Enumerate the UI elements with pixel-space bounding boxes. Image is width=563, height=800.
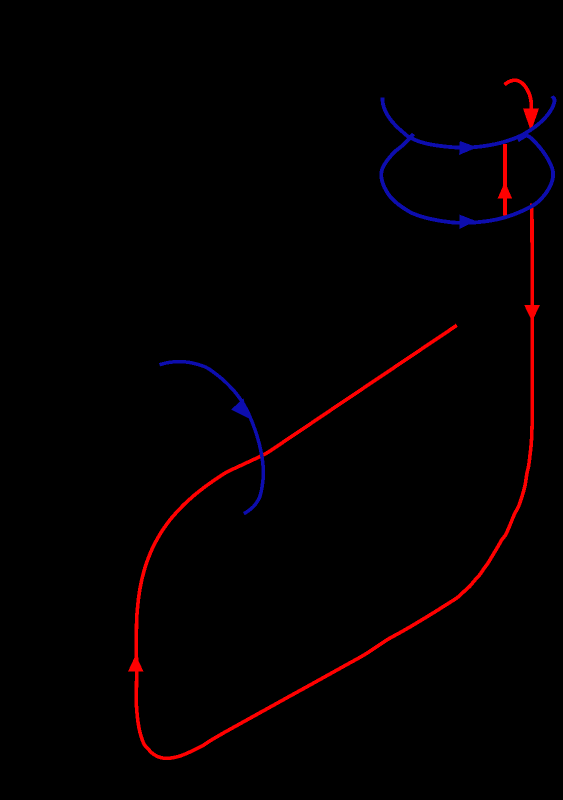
blue middle arc arrowhead xyxy=(231,399,249,419)
blue spiral lower loop xyxy=(381,134,553,223)
red up arrowhead on left rise xyxy=(128,655,144,672)
blue spiral lower arrowhead xyxy=(460,215,476,229)
red down arrowhead on right drop xyxy=(524,305,540,322)
blue middle arc xyxy=(160,362,264,514)
red short rising segment xyxy=(503,144,507,216)
red hook arrowhead (down) xyxy=(523,108,539,131)
blue spiral upper arrowhead xyxy=(459,141,477,155)
red up arrowhead on rising segment xyxy=(498,182,513,199)
red hook arrow curve (top right) xyxy=(505,80,532,108)
red main cycle: drop at right, bottom sweep, left rise, diagonal to end xyxy=(136,203,532,758)
blue spiral upper arc xyxy=(382,96,554,147)
